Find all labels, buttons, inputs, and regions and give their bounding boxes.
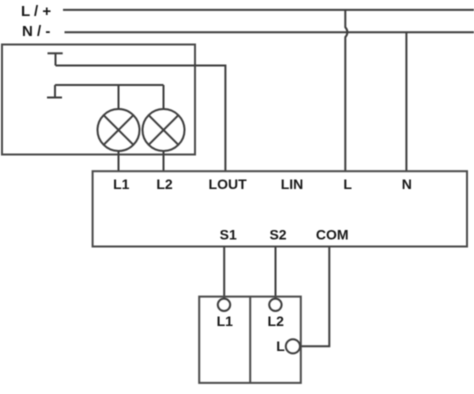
wire terminal COM to extension unit L	[300, 247, 329, 347]
svg-text:L2: L2	[268, 313, 285, 329]
wire terminal S1 to extension unit L1	[223, 247, 225, 301]
wire lamp E2 stem top	[163, 85, 165, 110]
svg-text:N / -: N / -	[22, 23, 50, 40]
svg-text:L1: L1	[113, 176, 130, 192]
svg-text:LIN: LIN	[281, 176, 304, 192]
lamp E2	[143, 109, 185, 151]
extension switch unit box	[199, 297, 301, 383]
extension unit divider	[249, 297, 251, 383]
terminal circle L2	[269, 299, 281, 311]
switch S1 (upper pushbutton actuator)	[48, 53, 63, 65]
lamp E1	[98, 109, 140, 151]
svg-text:L2: L2	[156, 176, 173, 192]
svg-text:L: L	[343, 176, 352, 192]
enclosure box (existing installation with switches and lamps)	[2, 45, 195, 155]
wire lamp E1 to terminal L1	[118, 151, 120, 172]
wire terminal S2 to extension unit L2	[275, 247, 277, 300]
wire N/- rail	[65, 31, 474, 33]
svg-text:L: L	[276, 338, 285, 354]
terminal circle L1	[218, 299, 230, 311]
wire N/- rail to terminal N	[405, 32, 407, 171]
wire switch S2 to lamps	[55, 84, 164, 86]
wire lamp E1 stem top	[118, 85, 120, 110]
wire switch S1 to LOUT	[56, 66, 226, 172]
wire L/+ rail	[63, 9, 474, 11]
svg-text:N: N	[402, 176, 412, 192]
svg-text:COM: COM	[316, 227, 349, 243]
svg-text:L / +: L / +	[21, 3, 51, 20]
device U1 (switch actuator) box	[93, 171, 467, 246]
svg-text:S2: S2	[269, 227, 286, 243]
wire lamp E2 to terminal L2	[163, 151, 165, 172]
wire L/+ rail to terminal L (with crossover hop over N rail)	[345, 10, 347, 172]
svg-text:LOUT: LOUT	[209, 176, 248, 192]
terminal circle L	[286, 339, 300, 353]
switch S2 (lower pushbutton actuator)	[47, 85, 62, 98]
svg-text:S1: S1	[220, 227, 237, 243]
svg-text:L1: L1	[217, 313, 234, 329]
